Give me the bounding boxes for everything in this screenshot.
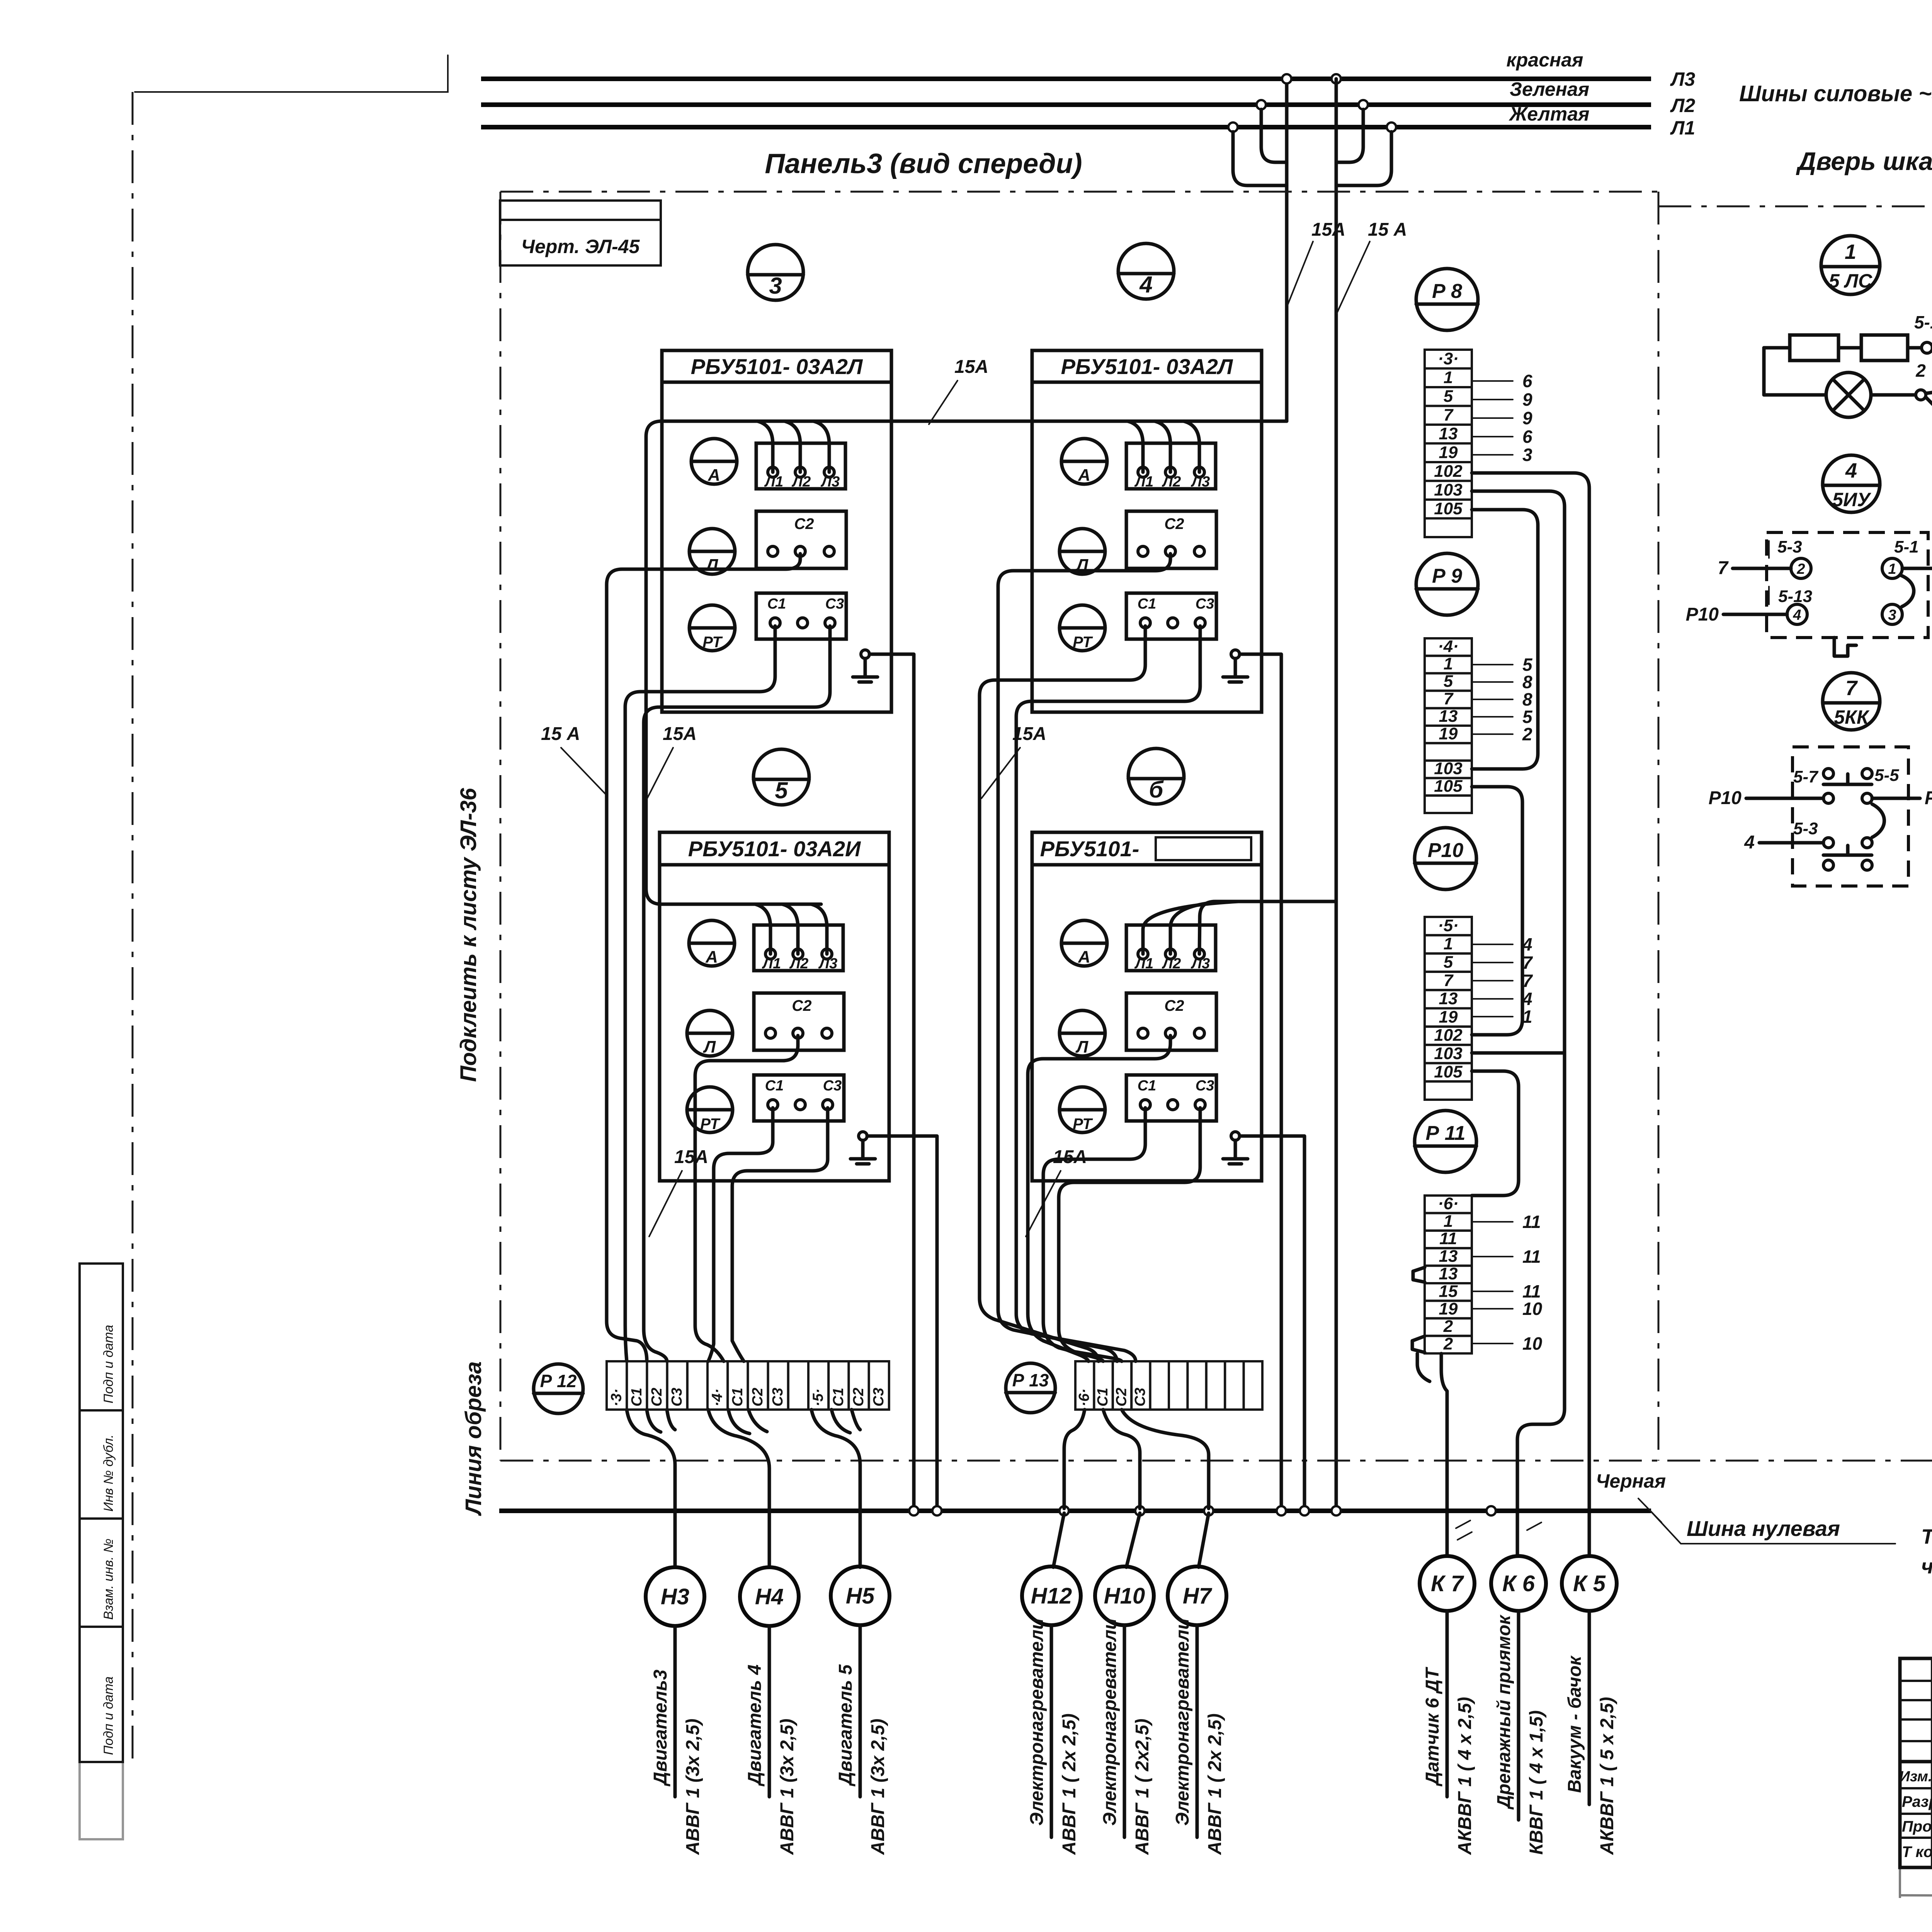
svg-text:РБУ5101- 03А2Л: РБУ5101- 03А2Л bbox=[691, 354, 863, 379]
svg-text:105: 105 bbox=[1434, 499, 1463, 518]
svg-text:19: 19 bbox=[1439, 443, 1458, 462]
cable Вакуум - бачок bbox=[1588, 1611, 1591, 1804]
svg-text:Взам. инв. №: Взам. инв. № bbox=[101, 1539, 116, 1620]
svg-text:Л1: Л1 bbox=[1134, 474, 1153, 490]
left margin faint cell bbox=[80, 1762, 123, 1839]
block U2 РБУ5101-03А2Л (top-right) bbox=[1032, 350, 1262, 712]
svg-text:·3·: ·3· bbox=[1438, 349, 1459, 368]
strip4 wire numbers bbox=[1473, 664, 1513, 665]
cable circle Н7 bbox=[1168, 1566, 1226, 1625]
svg-text:4: 4 bbox=[1793, 607, 1801, 623]
feeder drops into U1 pins bbox=[757, 421, 773, 472]
relay socket 5-3 bbox=[1723, 532, 1932, 656]
svg-text:13: 13 bbox=[1439, 424, 1458, 443]
terminal box С1 С3 bbox=[1126, 593, 1216, 639]
svg-text:Р10: Р10 bbox=[1428, 839, 1464, 862]
indicator Л bbox=[1060, 1010, 1105, 1056]
svg-text:·5·: ·5· bbox=[1438, 916, 1459, 935]
svg-text:С2: С2 bbox=[792, 997, 811, 1014]
svg-text:АКВВГ 1 ( 4 х 2,5): АКВВГ 1 ( 4 х 2,5) bbox=[1455, 1697, 1475, 1855]
svg-text:7: 7 bbox=[1444, 689, 1454, 708]
long vertical wire v1 from strips bbox=[1472, 473, 1589, 1554]
svg-text:Разраб: Разраб bbox=[1902, 1793, 1932, 1810]
block U4 РБУ5101- (bottom-right) bbox=[1032, 832, 1262, 1181]
svg-text:Панель3 (вид спереди): Панель3 (вид спереди) bbox=[765, 148, 1082, 179]
label Шина нулевая leader bbox=[1651, 1512, 1895, 1544]
indicator А bbox=[689, 920, 735, 966]
svg-text:Черная: Черная bbox=[1596, 1470, 1666, 1492]
svg-text:Н5: Н5 bbox=[846, 1583, 875, 1609]
cable Дренажный приямок bbox=[1517, 1611, 1520, 1820]
strip1 to cable H5 wires bbox=[811, 1410, 860, 1567]
svg-text:9: 9 bbox=[1522, 389, 1532, 410]
block U1 РБУ5101-03А2Л (top-left) bbox=[662, 350, 891, 712]
block U3 РБУ5101-03А2И (bottom-left) bbox=[660, 832, 889, 1181]
svg-text:С3: С3 bbox=[823, 1078, 842, 1094]
indicator Л bbox=[689, 529, 735, 574]
svg-text:Л3: Л3 bbox=[818, 956, 837, 972]
zero bus (шина нулевая) bbox=[499, 1509, 1651, 1513]
svg-text:С3: С3 bbox=[1132, 1388, 1148, 1406]
cable circle К6 bbox=[1491, 1556, 1546, 1611]
svg-text:А: А bbox=[1078, 466, 1090, 485]
wire drop A from buses bbox=[1285, 79, 1289, 421]
svg-text:2: 2 bbox=[1796, 561, 1805, 577]
terminal box Л1 Л2 Л3 bbox=[1126, 925, 1216, 971]
svg-text:Электронагреватели: Электронагреватели bbox=[1172, 1618, 1193, 1826]
svg-text:5-3: 5-3 bbox=[1793, 819, 1818, 838]
bus L3 (красная) bbox=[481, 77, 1651, 81]
svg-text:19: 19 bbox=[1439, 1007, 1458, 1026]
svg-text:Двигатель 4: Двигатель 4 bbox=[745, 1665, 765, 1787]
relay circle Р8 bbox=[1416, 269, 1478, 330]
svg-text:2: 2 bbox=[1522, 724, 1532, 744]
cable Двигатель 5 bbox=[859, 1625, 862, 1797]
svg-text:Л3: Л3 bbox=[1670, 68, 1695, 90]
terminal box С1 С3 bbox=[1126, 1075, 1216, 1121]
box Черт. ЭЛ-45 bbox=[500, 201, 661, 265]
svg-text:АВВГ 1 (3х 2,5): АВВГ 1 (3х 2,5) bbox=[683, 1719, 703, 1855]
svg-text:РТ: РТ bbox=[1073, 634, 1093, 651]
flow arrows near K7 bbox=[1456, 1520, 1472, 1540]
svg-text:19: 19 bbox=[1439, 724, 1458, 743]
svg-text:7: 7 bbox=[1444, 405, 1454, 424]
indicator А bbox=[1061, 439, 1107, 484]
strip6 wire numbers bbox=[1473, 1221, 1513, 1223]
strip2 to H12 H10 H7 wires bbox=[1064, 1410, 1085, 1509]
svg-text:5-7: 5-7 bbox=[1793, 767, 1819, 786]
bottom terminal strip 2 bbox=[1075, 1361, 1094, 1410]
terminal strip 5 (P10) bbox=[1425, 917, 1472, 935]
U3 ground wire to zero bus bbox=[867, 1136, 937, 1509]
panel circle 3 bbox=[748, 245, 803, 300]
svg-text:Провер: Провер bbox=[1902, 1818, 1932, 1835]
U3 C3 wire bbox=[732, 1108, 828, 1361]
svg-text:Подп и дата: Подп и дата bbox=[101, 1677, 116, 1755]
svg-text:С2: С2 bbox=[1164, 515, 1184, 532]
svg-text:Р10: Р10 bbox=[1686, 604, 1719, 625]
svg-text:102: 102 bbox=[1434, 462, 1463, 481]
cable circle Н5 bbox=[831, 1566, 889, 1625]
U2 ground wire to zero bus bbox=[1240, 654, 1281, 1509]
svg-text:черт. ЭЛ-46.: черт. ЭЛ-46. bbox=[1921, 1555, 1932, 1578]
svg-text:1: 1 bbox=[1444, 934, 1453, 953]
svg-text:Т контр: Т контр bbox=[1902, 1844, 1932, 1861]
strip1 to cable H3 wires bbox=[627, 1410, 675, 1567]
svg-text:Л: Л bbox=[1075, 1037, 1088, 1056]
svg-text:15 А: 15 А bbox=[541, 724, 580, 744]
svg-text:7: 7 bbox=[1718, 558, 1729, 578]
junction on L3 at drop A bbox=[1282, 74, 1291, 83]
terminal box С2 bbox=[756, 511, 846, 568]
cut line corner top-left bbox=[135, 55, 448, 92]
svg-text:С2: С2 bbox=[1164, 997, 1184, 1014]
svg-text:4: 4 bbox=[1845, 459, 1857, 482]
svg-text:2: 2 bbox=[1443, 1317, 1453, 1336]
relay circle Р12 bbox=[534, 1364, 583, 1413]
svg-text:Н3: Н3 bbox=[661, 1584, 689, 1609]
svg-text:11: 11 bbox=[1522, 1212, 1541, 1232]
svg-text:С1: С1 bbox=[1138, 1078, 1156, 1094]
svg-text:5: 5 bbox=[1444, 672, 1453, 691]
zero bus end slash bbox=[1638, 1498, 1662, 1522]
junction on L1 right loop bbox=[1387, 122, 1396, 132]
svg-text:С1: С1 bbox=[1095, 1388, 1111, 1406]
svg-text:Дренажный приямок: Дренажный приямок bbox=[1494, 1614, 1514, 1810]
svg-text:·6·: ·6· bbox=[1076, 1389, 1092, 1406]
svg-text:·3·: ·3· bbox=[609, 1389, 625, 1406]
title block bbox=[1900, 1658, 1932, 1867]
svg-text:С3: С3 bbox=[1196, 1078, 1214, 1094]
svg-text:РБУ5101- 03А2Л: РБУ5101- 03А2Л bbox=[1061, 354, 1233, 379]
svg-text:Инв № дубл.: Инв № дубл. bbox=[101, 1434, 116, 1512]
door circle 4 5ИУ bbox=[1823, 455, 1880, 512]
bottom terminal strip 1 bbox=[607, 1361, 627, 1410]
cut line vertical (линия обреза) bbox=[132, 92, 134, 1760]
svg-text:Шины силовые ~380В , 100А: Шины силовые ~380В , 100А bbox=[1739, 81, 1932, 106]
H7 bus to circle bbox=[1199, 1513, 1209, 1567]
svg-text:11: 11 bbox=[1522, 1247, 1541, 1267]
relay circle Р13 bbox=[1006, 1363, 1055, 1413]
strip6 bottom wire to K7 bbox=[1441, 1354, 1447, 1554]
svg-text:К 6: К 6 bbox=[1502, 1571, 1535, 1596]
zero bus junctions bbox=[909, 1506, 918, 1515]
svg-text:·4·: ·4· bbox=[709, 1389, 726, 1406]
strip3 wire numbers bbox=[1473, 380, 1513, 382]
terminal strip 6 (P11) bbox=[1425, 1196, 1472, 1213]
terminal box Л1 Л2 Л3 bbox=[754, 925, 843, 971]
cable Электронагреватели bbox=[1050, 1625, 1053, 1837]
svg-text:15 А: 15 А bbox=[1368, 219, 1407, 240]
cable Электронагреватели bbox=[1123, 1625, 1126, 1837]
svg-text:Подп и дата: Подп и дата bbox=[101, 1325, 116, 1403]
feeder wire 15A top horizontal bbox=[646, 421, 1287, 904]
cable Двигатель3 bbox=[673, 1626, 677, 1797]
wire drop B from buses bbox=[1335, 79, 1338, 1509]
svg-text:5-19: 5-19 bbox=[1914, 312, 1932, 332]
svg-text:7: 7 bbox=[1845, 677, 1858, 700]
title block partial bottom row bbox=[1900, 1867, 1932, 1898]
U4 ground wire to zero bus bbox=[1240, 1136, 1304, 1509]
strip5 wire numbers bbox=[1473, 944, 1513, 945]
svg-text:С3: С3 bbox=[1196, 596, 1214, 612]
cable circle Н12 bbox=[1022, 1566, 1081, 1625]
ground symbol bbox=[861, 650, 869, 658]
loop L2 to drop B bbox=[1336, 109, 1363, 162]
terminal box С1 С3 bbox=[754, 1075, 844, 1121]
svg-text:105: 105 bbox=[1434, 777, 1463, 796]
junction on L3 at drop B bbox=[1332, 74, 1341, 83]
svg-text:Изм.: Изм. bbox=[1900, 1769, 1932, 1785]
svg-text:С2: С2 bbox=[794, 515, 814, 532]
svg-text:5КК: 5КК bbox=[1834, 706, 1870, 728]
cable Двигатель 4 bbox=[768, 1626, 771, 1797]
svg-text:105: 105 bbox=[1434, 1062, 1463, 1081]
cable circle Н4 bbox=[740, 1567, 799, 1626]
U1 ground wire to zero bus bbox=[869, 654, 914, 1509]
terminal box С2 bbox=[1126, 993, 1216, 1050]
svg-text:АВВГ 1 ( 2х 2,5): АВВГ 1 ( 2х 2,5) bbox=[1059, 1713, 1080, 1855]
U2 C3 wire down middle bbox=[1016, 626, 1200, 1361]
svg-text:Черт. ЭЛ-45: Черт. ЭЛ-45 bbox=[521, 236, 640, 257]
door boundary dash-dot bbox=[1658, 206, 1932, 207]
U3 C2 wire bbox=[695, 1036, 798, 1361]
svg-text:К 7: К 7 bbox=[1431, 1571, 1464, 1596]
svg-text:Л: Л bbox=[705, 556, 718, 575]
svg-text:15А: 15А bbox=[1311, 219, 1345, 240]
svg-text:красная: красная bbox=[1507, 49, 1583, 71]
svg-text:3: 3 bbox=[1522, 445, 1532, 465]
svg-text:2: 2 bbox=[1443, 1335, 1453, 1354]
svg-text:Л3: Л3 bbox=[1190, 956, 1210, 972]
svg-text:·5·: ·5· bbox=[810, 1389, 827, 1406]
svg-text:РТ: РТ bbox=[702, 634, 723, 651]
panel circle 4 bbox=[1118, 243, 1174, 299]
feeder wire to U4 bbox=[1199, 901, 1336, 954]
feeder drops into U3 pins bbox=[755, 904, 770, 954]
U4 C3 wire bbox=[1059, 1108, 1200, 1361]
svg-text:С2: С2 bbox=[850, 1388, 867, 1406]
svg-text:С1: С1 bbox=[629, 1388, 645, 1406]
svg-text:Л1: Л1 bbox=[764, 474, 783, 490]
svg-text:5: 5 bbox=[1444, 387, 1453, 406]
svg-text:5: 5 bbox=[1444, 952, 1453, 971]
U2 C1 wire down middle bbox=[980, 626, 1145, 1361]
svg-text:А: А bbox=[1078, 947, 1090, 966]
svg-text:3: 3 bbox=[769, 273, 782, 299]
svg-text:103: 103 bbox=[1434, 759, 1462, 778]
svg-text:Р 11: Р 11 bbox=[1425, 1122, 1465, 1145]
indicator Л bbox=[1060, 529, 1105, 574]
svg-text:Н7: Н7 bbox=[1183, 1583, 1213, 1609]
cable circle К5 bbox=[1562, 1556, 1617, 1611]
svg-text:6: 6 bbox=[1522, 427, 1532, 447]
svg-text:Н4: Н4 bbox=[755, 1584, 784, 1609]
svg-text:С1: С1 bbox=[767, 596, 786, 612]
svg-text:13: 13 bbox=[1439, 989, 1458, 1008]
svg-text:Л: Л bbox=[703, 1037, 716, 1056]
svg-text:1: 1 bbox=[1444, 654, 1453, 673]
svg-text:А: А bbox=[705, 947, 718, 966]
terminal box С1 С3 bbox=[756, 593, 846, 639]
U1 C1 wire bbox=[625, 626, 775, 1361]
relay socket 5-7 bbox=[1746, 747, 1920, 886]
indicator Л bbox=[687, 1010, 733, 1056]
svg-text:РТ: РТ bbox=[1073, 1116, 1093, 1133]
indicator РТ bbox=[1060, 1087, 1105, 1133]
svg-text:Л1: Л1 bbox=[762, 956, 781, 972]
svg-text:6: 6 bbox=[1522, 371, 1532, 391]
svg-text:б: б bbox=[1149, 777, 1164, 803]
svg-text:1: 1 bbox=[1888, 561, 1896, 577]
strip stubs to verticals bbox=[1472, 510, 1538, 769]
panel circle 5 bbox=[753, 749, 809, 805]
ground symbol bbox=[859, 1132, 867, 1140]
svg-text:Подклеить к листу ЭЛ-36: Подклеить к листу ЭЛ-36 bbox=[456, 788, 481, 1082]
svg-text:С3: С3 bbox=[669, 1388, 685, 1406]
svg-text:103: 103 bbox=[1434, 480, 1462, 499]
svg-text:АВВГ 1 (3х 2,5): АВВГ 1 (3х 2,5) bbox=[777, 1719, 798, 1855]
svg-text:Двигатель 5: Двигатель 5 bbox=[835, 1664, 856, 1787]
svg-text:Дверь шкафа панели3(вид со: Дверь шкафа панели3(вид со стороны монта… bbox=[1796, 147, 1932, 175]
svg-text:11: 11 bbox=[1439, 1229, 1457, 1248]
svg-text:10: 10 bbox=[1522, 1333, 1543, 1354]
svg-text:С3: С3 bbox=[871, 1388, 887, 1406]
loop L1 to drop A bbox=[1233, 132, 1287, 185]
svg-text:С2: С2 bbox=[750, 1388, 766, 1406]
svg-text:Л1: Л1 bbox=[1134, 956, 1153, 972]
svg-text:19: 19 bbox=[1439, 1299, 1458, 1318]
cable Датчик 6 ДТ bbox=[1446, 1611, 1449, 1797]
svg-text:Р 12: Р 12 bbox=[540, 1371, 577, 1391]
terminal strip 3 (P8) bbox=[1425, 350, 1472, 369]
loop L2 to drop A bbox=[1261, 109, 1287, 162]
U4 C1 wire bbox=[1043, 1108, 1145, 1361]
svg-text:5-1: 5-1 bbox=[1894, 537, 1919, 556]
cable circle Н10 bbox=[1095, 1566, 1154, 1625]
svg-text:А: А bbox=[707, 466, 720, 485]
svg-text:Л3: Л3 bbox=[820, 474, 840, 490]
svg-text:Л2: Л2 bbox=[1670, 95, 1695, 116]
ground symbol bbox=[1231, 650, 1240, 658]
svg-text:Электронагреватели: Электронагреватели bbox=[1100, 1618, 1120, 1826]
terminal strip 4 (P9) bbox=[1425, 638, 1472, 656]
svg-text:Н10: Н10 bbox=[1104, 1583, 1145, 1609]
H12 bus to circle bbox=[1053, 1513, 1064, 1567]
svg-text:Л3: Л3 bbox=[1190, 474, 1210, 490]
long vertical wire v2 from strips bbox=[1472, 491, 1565, 1554]
svg-text:3: 3 bbox=[1888, 607, 1896, 623]
svg-text:КВВГ 1 ( 4 х 1,5): КВВГ 1 ( 4 х 1,5) bbox=[1526, 1710, 1547, 1855]
svg-text:1: 1 bbox=[1845, 240, 1856, 264]
loop L1 to drop B bbox=[1336, 132, 1391, 185]
terminal box С2 bbox=[1126, 511, 1216, 568]
indicator РТ bbox=[687, 1087, 733, 1133]
svg-text:Зеленая: Зеленая bbox=[1510, 78, 1589, 100]
svg-text:Л1: Л1 bbox=[1670, 117, 1695, 139]
svg-text:Электронагреватели: Электронагреватели bbox=[1027, 1618, 1047, 1826]
bus L2 (зеленая) bbox=[481, 102, 1651, 107]
U3 C1 wire bbox=[708, 1108, 773, 1361]
svg-text:С1: С1 bbox=[1138, 596, 1156, 612]
relay circle Р11 bbox=[1415, 1111, 1476, 1172]
panel circle 6 bbox=[1128, 748, 1184, 804]
lamp circuit 5-19 bbox=[1764, 312, 1932, 425]
U1 C3 wire bbox=[644, 626, 830, 1361]
svg-text:С2: С2 bbox=[649, 1388, 665, 1406]
svg-text:1: 1 bbox=[1444, 368, 1453, 387]
svg-text:РБУ5101- 03А2И: РБУ5101- 03А2И bbox=[688, 837, 861, 861]
svg-text:Вакуум - бачок: Вакуум - бачок bbox=[1565, 1655, 1585, 1793]
svg-text:Шина нулевая: Шина нулевая bbox=[1687, 1516, 1840, 1541]
svg-text:5-5: 5-5 bbox=[1874, 766, 1899, 785]
door circle 7 5КК bbox=[1823, 673, 1880, 730]
U1 C2 wire to strip bbox=[607, 554, 800, 1361]
svg-text:С3: С3 bbox=[770, 1388, 786, 1406]
svg-text:Л2: Л2 bbox=[1162, 474, 1181, 490]
svg-text:Линия обреза: Линия обреза bbox=[461, 1361, 486, 1516]
svg-text:Р10: Р10 bbox=[1709, 788, 1742, 808]
svg-text:АКВВГ 1 ( 5 х 2,5): АКВВГ 1 ( 5 х 2,5) bbox=[1597, 1697, 1617, 1855]
indicator РТ bbox=[689, 605, 735, 651]
svg-text:5: 5 bbox=[775, 777, 788, 803]
bus L1 (желтая) bbox=[481, 125, 1651, 129]
cable circle Н3 bbox=[646, 1567, 704, 1626]
svg-text:С1: С1 bbox=[730, 1388, 746, 1406]
strip 6 left notches bbox=[1413, 1267, 1425, 1282]
junction on L2 left loop bbox=[1257, 100, 1266, 109]
svg-text:РБУ5101-: РБУ5101- bbox=[1040, 837, 1139, 861]
U2 C2 wire down middle bbox=[998, 554, 1170, 1361]
indicator А bbox=[691, 439, 737, 484]
svg-text:РТ: РТ bbox=[700, 1116, 721, 1133]
svg-text:·6·: ·6· bbox=[1438, 1194, 1459, 1213]
svg-text:Желтая: Желтая bbox=[1509, 103, 1590, 125]
junction on L2 right loop bbox=[1359, 100, 1368, 109]
svg-text:Технические данные электрооб: Технические данные электрооборудования - bbox=[1921, 1525, 1932, 1548]
strip1 to cable H4 wires bbox=[708, 1410, 769, 1567]
svg-text:5 ЛС: 5 ЛС bbox=[1829, 270, 1872, 292]
left margin stamp cells bbox=[80, 1264, 123, 1410]
svg-text:15А: 15А bbox=[954, 357, 988, 377]
svg-text:103: 103 bbox=[1434, 1044, 1462, 1063]
U4 C2 wire to strip2 bbox=[1028, 1036, 1170, 1361]
svg-text:АВВГ 1 ( 2х2,5): АВВГ 1 ( 2х2,5) bbox=[1132, 1719, 1153, 1855]
cable Электронагреватели bbox=[1196, 1625, 1199, 1837]
svg-text:Л2: Л2 bbox=[1162, 956, 1181, 972]
svg-text:АВВГ 1 ( 2х 2,5): АВВГ 1 ( 2х 2,5) bbox=[1205, 1713, 1225, 1855]
svg-text:Р 9: Р 9 bbox=[1432, 565, 1462, 587]
svg-text:102: 102 bbox=[1434, 1026, 1463, 1045]
door circle 1 5ЛС bbox=[1821, 236, 1880, 294]
svg-text:7: 7 bbox=[1444, 971, 1454, 990]
svg-text:13: 13 bbox=[1439, 1264, 1458, 1283]
svg-text:15: 15 bbox=[1439, 1282, 1458, 1301]
svg-text:4: 4 bbox=[1744, 832, 1755, 853]
panel boundary dash-dot box bbox=[500, 191, 1658, 193]
svg-text:С1: С1 bbox=[765, 1078, 784, 1094]
svg-text:15А: 15А bbox=[674, 1147, 708, 1167]
svg-text:Л2: Л2 bbox=[791, 474, 811, 490]
svg-text:·4·: ·4· bbox=[1438, 637, 1459, 656]
cable circle К7 bbox=[1420, 1556, 1475, 1611]
svg-text:2: 2 bbox=[1915, 361, 1926, 381]
indicator А bbox=[1061, 920, 1107, 966]
feeder drops into U2 pins bbox=[1128, 421, 1143, 472]
terminal box Л1 Л2 Л3 bbox=[1126, 443, 1216, 489]
H10 bus to circle bbox=[1126, 1513, 1140, 1567]
svg-text:15А: 15А bbox=[663, 724, 697, 744]
